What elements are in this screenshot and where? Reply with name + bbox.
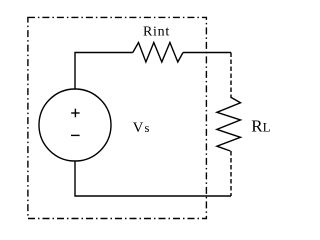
- minus sign inside source: [71, 134, 80, 136]
- wire: bottom wire and source bottom stub: [75, 161, 231, 196]
- dash-dot boundary box: [28, 17, 207, 218]
- svg-text:Rint: Rint: [143, 24, 170, 39]
- voltage source Vs (circle): [39, 89, 111, 161]
- svg-text:Vs: Vs: [133, 120, 150, 136]
- wire: resistor to top-right corner: [183, 52, 231, 54]
- svg-text:RL: RL: [251, 117, 270, 136]
- resistor RL (vertical zigzag): [217, 97, 241, 151]
- wire (dashed): top-right corner down to RL: [230, 53, 232, 98]
- wire (dashed): RL down to bottom wire: [230, 151, 232, 196]
- wire: source top stub up and top wire to resistor: [75, 53, 133, 90]
- resistor Rint (zigzag): [133, 43, 183, 63]
- plus sign inside source: [71, 109, 79, 118]
